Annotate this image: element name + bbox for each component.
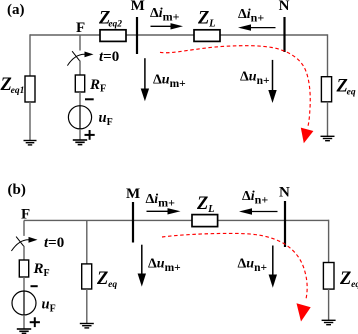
ground (section a right) — [321, 136, 335, 140]
wire: bus from ZL to right corner (section b) — [218, 219, 329, 221]
svg-text:t=0: t=0 — [99, 49, 119, 65]
ground (below source uF, section a) — [73, 140, 87, 145]
svg-text:(a): (a) — [7, 2, 25, 18]
svg-text:Δim+: Δim+ — [150, 6, 180, 24]
ground (below middle Zeq, section b) — [80, 324, 94, 328]
wire: F stub down from bus (section a) — [79, 35, 81, 51]
switch blade (section a) — [72, 51, 80, 61]
impedance Zeq right (section a) — [321, 77, 355, 102]
node M (section b) busbar — [126, 186, 140, 243]
polarity minus (section b) — [31, 285, 38, 287]
node N (section a) busbar — [279, 0, 290, 52]
impedance ZL (section a) — [194, 9, 220, 42]
polarity minus (section a) — [85, 98, 94, 100]
wire: Zeq to ground (section a right) — [327, 102, 329, 137]
polarity plus (section a) — [85, 130, 95, 140]
impedance Zeq middle (section b) — [82, 264, 118, 290]
impedance Zeq right (section b) — [323, 263, 358, 291]
label di_m+ with right arrow (section a) — [150, 6, 183, 29]
wire: Zeq1 to ground — [29, 102, 31, 141]
voltage source uF circle (section a) — [68, 106, 91, 129]
label di_n+ with left arrow (section b) — [239, 189, 278, 215]
arrow du_m+ (section b) — [138, 245, 181, 287]
wire: top bus from left corner to Zeq2 — [30, 34, 100, 36]
wire: right branch vertical (section b) — [328, 220, 330, 263]
wire: middle branch vertical (section b) — [86, 220, 88, 264]
wire: Zeq middle to ground (section b) — [86, 289, 88, 324]
ground (section b right) — [322, 320, 336, 324]
panel label (a) — [7, 2, 25, 18]
resistor RF (section a) — [75, 75, 106, 95]
wire: left branch vertical (section a) — [29, 34, 31, 76]
node F (section a) — [76, 20, 85, 36]
wire: source to ground (section a) — [79, 129, 81, 140]
impedance Zeq1 — [0, 75, 35, 102]
switch closing arc with arrowhead, t=0 (section a) — [67, 49, 119, 66]
label uF (section b) — [42, 297, 56, 315]
label di_m+ with right arrow (section b) — [146, 192, 181, 215]
wire: top bus from ZL to right corner (through node N) — [220, 34, 328, 36]
arrow du_n+ (section a) — [240, 60, 277, 103]
red fault path dashed curve (section a) — [160, 46, 313, 144]
node F (section b) — [21, 207, 30, 223]
arrow du_n+ (section b) — [238, 246, 278, 288]
voltage source uF circle (section b) — [12, 291, 36, 315]
resistor RF (section b) — [19, 260, 49, 279]
ground (below Zeq1) — [24, 141, 37, 145]
node N (section b) busbar — [279, 185, 290, 248]
switch blade (section b) — [16, 237, 24, 247]
wire: top bus from Zeq2 to ZL (through node M) — [126, 34, 194, 36]
wire: switch to RF (section b) — [23, 246, 25, 261]
switch closing arc with arrowhead, t=0 (section b) — [11, 235, 64, 251]
wire: source to ground (section b) — [23, 315, 25, 329]
node M (section a) busbar — [131, 0, 145, 54]
svg-text:F: F — [76, 20, 85, 36]
svg-text:(b): (b) — [8, 182, 26, 198]
wire: switch to RF (section a) — [79, 61, 81, 76]
svg-text:t=0: t=0 — [44, 235, 64, 251]
label uF (section a) — [99, 110, 113, 128]
wire: bus from F to ZL (section b) — [24, 219, 192, 221]
svg-text:M: M — [131, 0, 145, 14]
wire: RF to source (section b) — [23, 277, 25, 291]
svg-text:N: N — [279, 0, 290, 14]
panel label (b) — [8, 182, 26, 198]
svg-text:Δin+: Δin+ — [238, 7, 264, 25]
arrow du_m+ (section a) — [141, 58, 186, 101]
svg-text:M: M — [126, 186, 140, 202]
red fault path dashed curve (section b) — [162, 233, 311, 321]
wire: right branch vertical (section a) — [327, 34, 329, 77]
ground (below source uF, section b) — [17, 329, 31, 333]
svg-text:N: N — [279, 185, 290, 201]
impedance ZL (section b) — [192, 194, 218, 227]
label di_n+ with left arrow (section a) — [238, 7, 276, 31]
svg-text:Δim+: Δim+ — [146, 192, 176, 210]
wire: F stub down (section b) — [23, 220, 25, 236]
svg-text:Δin+: Δin+ — [242, 189, 268, 207]
wire: Zeq to ground (section b right) — [328, 289, 330, 320]
impedance Zeq2 — [98, 9, 126, 42]
wire: RF to source (section a) — [79, 92, 81, 106]
polarity plus (section b) — [30, 317, 40, 327]
